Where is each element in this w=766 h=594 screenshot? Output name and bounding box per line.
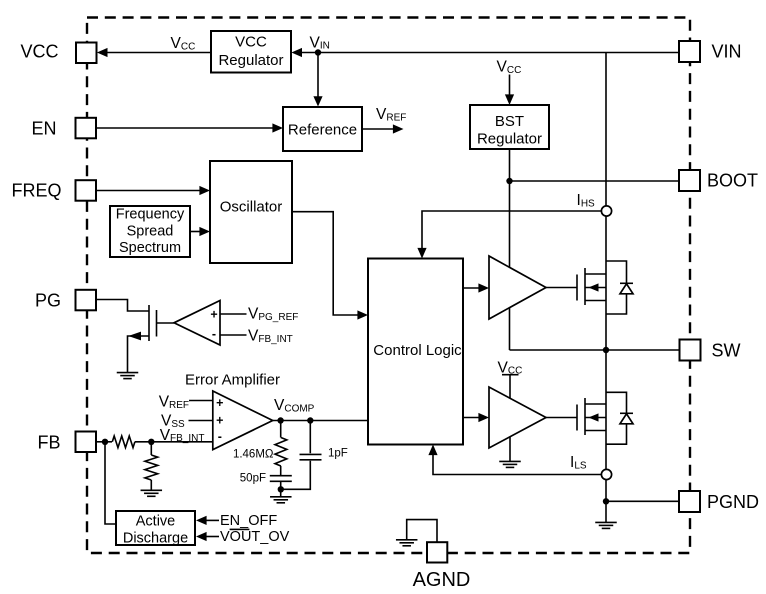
arrowhead VCC into BST Regulator — [505, 94, 514, 105]
resistor 1.46Mohm compensation — [275, 438, 287, 467]
wire HS FET rail — [605, 216, 607, 350]
node junction dot BOOT — [506, 178, 512, 184]
pin PGND — [679, 491, 700, 512]
resistor FB shunt — [145, 455, 158, 480]
pin VCC — [76, 43, 97, 64]
node junction dot SW — [603, 347, 609, 353]
block Reference — [283, 107, 362, 151]
diode HS body diode — [606, 261, 633, 314]
arrowhead Control Logic to LS driver — [478, 413, 489, 422]
svg-text:FB: FB — [37, 433, 60, 453]
arrowhead VIN into Reference — [313, 96, 322, 106]
wire Control Logic to LS driver — [463, 417, 485, 419]
wire BOOT node down to HS driver and SW — [509, 181, 511, 350]
overline on OUT — [230, 529, 250, 531]
wire 1pF down to ground node — [281, 461, 311, 490]
svg-text:PGND: PGND — [707, 492, 759, 512]
wire VCOMP to 1.46M resistor — [280, 421, 282, 438]
wire ILS sense to Control Logic — [433, 450, 601, 475]
capacitor 50pF — [270, 476, 292, 482]
node IHS current sense — [601, 206, 611, 216]
arrowhead VREF output — [393, 124, 404, 133]
arrowhead into VCC pin — [97, 48, 108, 57]
WIRES_LAYER — [97, 53, 681, 543]
ground FB shunt resistor — [141, 490, 163, 496]
pin EN — [76, 118, 97, 139]
pin FB — [76, 432, 97, 453]
wire IHS sense to Control Logic — [422, 211, 601, 254]
op-amp high-side gate driver — [489, 256, 546, 319]
node junction dot VCOMP A — [277, 417, 283, 423]
block BST Regulator — [470, 105, 549, 149]
arrowhead EN_OFF into Active Discharge — [196, 516, 207, 525]
wire VCC arrow into BST regulator — [509, 75, 511, 101]
node junction dot VIN — [315, 49, 321, 55]
ground compensation network — [270, 497, 292, 503]
capacitor 1pF — [300, 454, 322, 459]
wire VIN line to VCC regulator — [297, 52, 680, 54]
wire LS FET rail to ILS sense — [605, 350, 607, 469]
arrowhead VOUT_OV into Active Discharge — [196, 532, 207, 541]
wire VCC tee to LS driver and ground — [502, 374, 519, 376]
wire VCC regulator output to VCC pin — [102, 52, 211, 54]
resistor FB series — [112, 436, 135, 448]
svg-text:VCC: VCC — [235, 34, 267, 51]
wire SW line — [510, 349, 681, 351]
arrowhead FREQ into Oscillator — [199, 186, 210, 195]
pin AGND — [427, 542, 447, 562]
arrowhead Oscillator into Control Logic — [357, 310, 368, 319]
node junction dot FB left — [102, 439, 108, 445]
wire FB line to EA inverting input — [97, 441, 113, 443]
wire PG comparator - input — [220, 334, 247, 336]
wire 1.46M resistor to 50pF — [280, 466, 282, 476]
op-amp PG comparator — [174, 301, 220, 346]
wire FB node to Active Discharge — [105, 442, 116, 524]
svg-text:Oscillator: Oscillator — [220, 199, 283, 216]
svg-text:BST: BST — [495, 113, 524, 130]
wire EA VSS input — [189, 420, 213, 422]
arrowhead IHS into Control Logic — [417, 248, 426, 259]
wire ILS to PGND node — [605, 480, 607, 502]
ground power stage PGND — [595, 522, 617, 528]
transistor PG open-drain MOSFET — [128, 305, 174, 341]
wire VCOMP to 1pF — [309, 421, 311, 454]
ground AGND symbol — [396, 540, 418, 546]
svg-text:+: + — [216, 396, 223, 410]
ground PG FET source — [117, 373, 139, 379]
wire PG comparator + input — [220, 313, 247, 315]
svg-text:1.46MΩ: 1.46MΩ — [233, 449, 274, 461]
svg-text:+: + — [216, 414, 223, 428]
transistor LS power MOSFET — [577, 398, 606, 435]
block VCC Regulator — [211, 31, 291, 73]
wire EN_OFF into Active Discharge — [206, 519, 220, 521]
wire Reference output VREF — [362, 128, 399, 130]
wire PGND node to PGND pin — [606, 500, 679, 502]
svg-text:Spread: Spread — [127, 223, 174, 239]
svg-text:EN_OFF: EN_OFF — [220, 513, 277, 529]
wire FREQ to Oscillator — [97, 190, 206, 192]
svg-text:AGND: AGND — [413, 569, 471, 591]
pin BOOT — [679, 170, 700, 191]
node junction dot VCOMP B — [307, 417, 313, 423]
svg-text:Error Amplifier: Error Amplifier — [185, 372, 280, 389]
wire BST regulator to BOOT node — [509, 149, 511, 181]
svg-text:VCC: VCC — [20, 42, 58, 62]
arrowhead ILS into Control Logic — [428, 445, 437, 456]
svg-text:Regulator: Regulator — [218, 52, 283, 69]
svg-text:+: + — [210, 308, 217, 322]
arrowhead into VCC regulator — [291, 48, 302, 57]
COMPONENTS_LAYER — [76, 31, 701, 563]
svg-text:50pF: 50pF — [240, 473, 266, 485]
wire FSS to Oscillator — [190, 231, 206, 233]
svg-text:1pF: 1pF — [328, 448, 348, 460]
wire 50pF to ground node — [280, 481, 282, 497]
wire FB node down to shunt resistor — [150, 442, 152, 455]
node ILS current sense — [601, 469, 611, 479]
wire BOOT node to BOOT pin — [510, 180, 680, 182]
arrowhead EN into Reference — [272, 123, 283, 132]
svg-text:Frequency: Frequency — [116, 207, 185, 223]
op-amp error amplifier U_EA — [213, 391, 273, 450]
svg-text:Active: Active — [136, 514, 176, 530]
arrowhead FSS into Oscillator — [199, 227, 210, 236]
svg-text:BOOT: BOOT — [707, 171, 758, 191]
transistor HS power MOSFET — [577, 268, 606, 305]
svg-text:Discharge: Discharge — [123, 531, 188, 547]
pin FREQ — [76, 180, 97, 201]
arrowhead Control Logic to HS driver — [478, 283, 489, 292]
diode LS body diode — [606, 392, 633, 444]
node junction dot PGND — [603, 498, 609, 504]
wire VOUT_OV into Active Discharge — [206, 536, 220, 538]
svg-text:PG: PG — [35, 291, 61, 311]
svg-text:SW: SW — [712, 341, 741, 361]
svg-text:EN: EN — [31, 119, 56, 139]
wire Oscillator to Control Logic — [292, 212, 364, 315]
block Control Logic — [368, 259, 463, 445]
svg-text:-: - — [218, 430, 222, 444]
wire VIN rail down to HS FET — [605, 53, 607, 206]
wire Control Logic to HS driver — [463, 287, 485, 289]
svg-text:VIN: VIN — [712, 42, 742, 62]
svg-text:Reference: Reference — [288, 122, 357, 139]
op-amp low-side gate driver — [489, 387, 546, 448]
ground LS driver — [499, 461, 521, 467]
svg-text:Control Logic: Control Logic — [373, 342, 462, 359]
wire VIN drop to Reference — [317, 53, 319, 102]
node junction dot compensation ground — [278, 486, 284, 492]
svg-text:-: - — [212, 327, 216, 341]
pin VIN — [679, 41, 700, 62]
wire HS driver output to HS FET gate — [546, 287, 577, 289]
block Frequency Spread Spectrum — [110, 206, 190, 257]
block Active Discharge — [116, 511, 195, 545]
wire AGND pin to ground symbol — [407, 520, 437, 543]
wire LS driver output to LS FET gate — [546, 417, 577, 419]
node junction dot FB divider — [148, 439, 154, 445]
block Oscillator — [210, 161, 292, 263]
wire PGND node to ground — [605, 501, 607, 522]
wire EA VREF input — [189, 400, 213, 402]
wire EA output VCOMP to Control Logic — [273, 420, 368, 422]
wire PG FET source to ground — [128, 336, 150, 373]
pin SW — [680, 340, 701, 361]
IC boundary dashed border — [87, 18, 690, 554]
svg-text:FREQ: FREQ — [11, 181, 61, 201]
pin PG — [76, 290, 97, 311]
wire PG pin to PG FET drain — [97, 300, 150, 312]
svg-text:Spectrum: Spectrum — [119, 240, 181, 256]
svg-text:Regulator: Regulator — [477, 131, 542, 148]
svg-text:VOUT_OV: VOUT_OV — [220, 529, 290, 545]
wire EN to Reference — [97, 127, 279, 129]
